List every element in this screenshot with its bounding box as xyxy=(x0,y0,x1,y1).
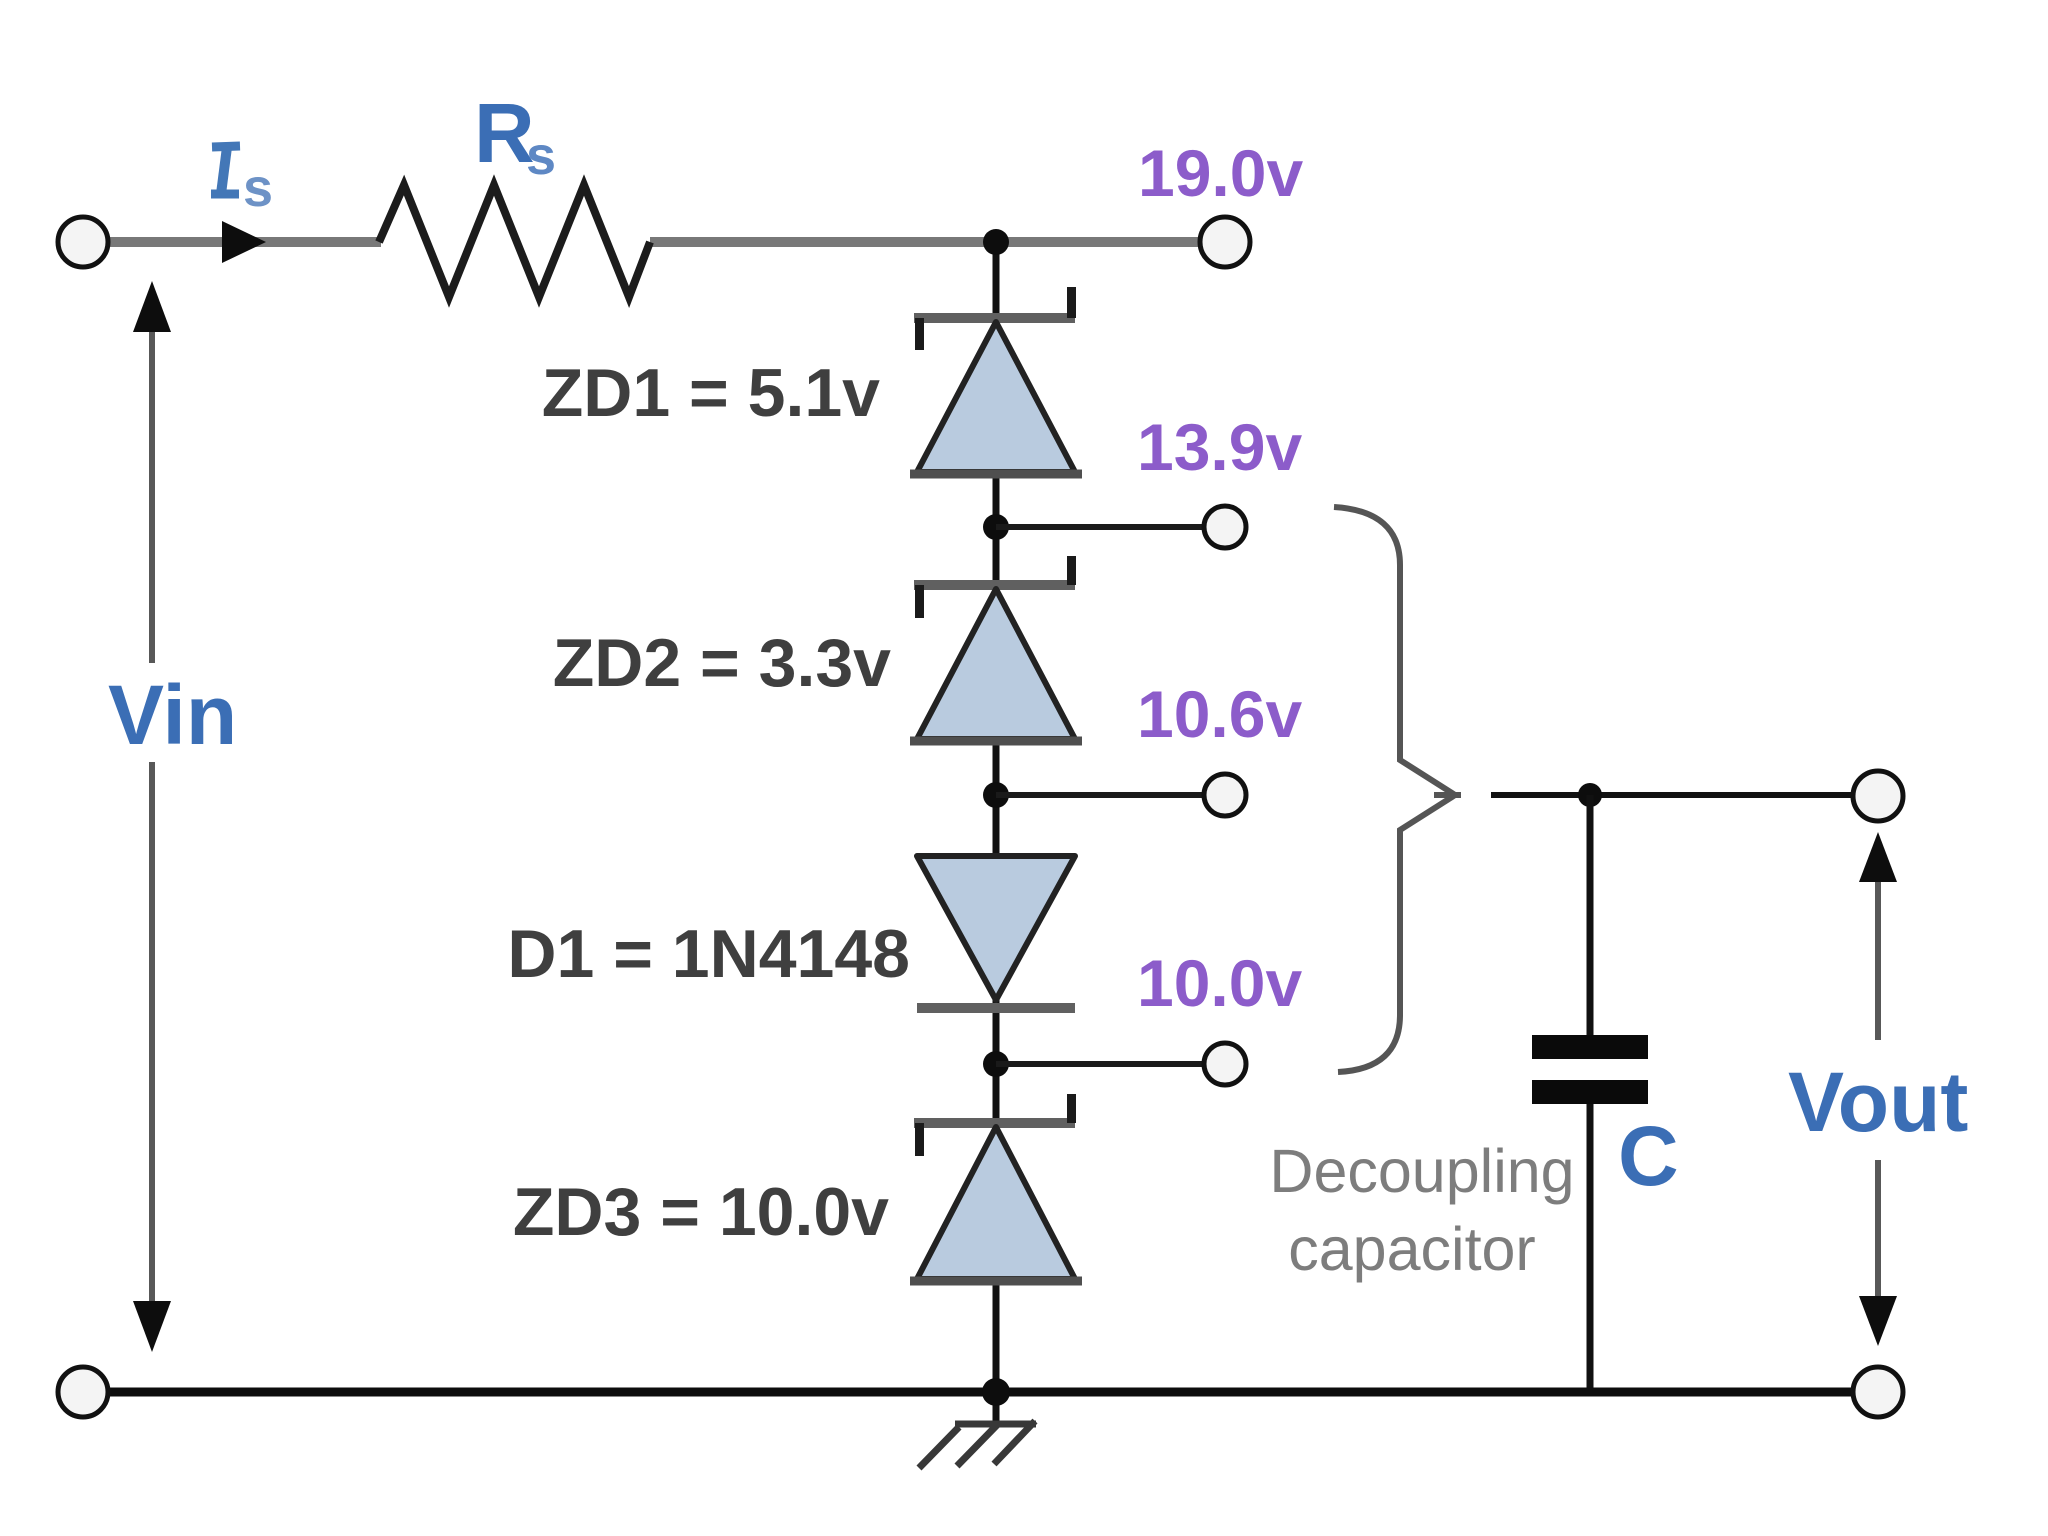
svg-text:C: C xyxy=(1618,1109,1679,1203)
svg-text:ZD1 = 5.1v: ZD1 = 5.1v xyxy=(542,355,880,431)
terminal 19.0v (top right) xyxy=(1200,217,1250,267)
node D (10.0v junction) xyxy=(983,1051,1009,1077)
svg-text:Vout: Vout xyxy=(1788,1055,1968,1149)
zener diode ZD3 xyxy=(910,1094,1082,1281)
terminal 13.9v xyxy=(1204,506,1246,548)
input terminal (top left) xyxy=(58,217,108,267)
terminal Vout- (bottom right) xyxy=(1853,1367,1903,1417)
wire tap 13.9v xyxy=(996,524,1203,530)
Vout arrow xyxy=(1859,832,1897,1346)
brace (output group) xyxy=(1334,507,1461,1072)
svg-text:Decoupling: Decoupling xyxy=(1269,1137,1574,1205)
label Rs xyxy=(474,86,556,186)
wire zener chain (node A to ground) xyxy=(993,242,1000,1424)
svg-text:s: s xyxy=(243,158,273,218)
svg-text:Vin: Vin xyxy=(108,668,237,762)
label Decoupling capacitor xyxy=(1269,1137,1574,1283)
ground xyxy=(919,1421,1036,1468)
wire output rail xyxy=(1491,792,1855,798)
terminal 10.6v xyxy=(1204,774,1246,816)
wire tap 10.0v xyxy=(996,1061,1203,1067)
resistor Rs xyxy=(379,185,650,297)
svg-text:10.6v: 10.6v xyxy=(1137,677,1302,751)
diode D1 xyxy=(917,856,1075,1013)
zener diode ZD1 xyxy=(910,287,1082,474)
node A (19.0v junction) xyxy=(983,229,1009,255)
svg-text:13.9v: 13.9v xyxy=(1137,410,1302,484)
terminal 10.0v xyxy=(1204,1043,1246,1085)
current arrow Is xyxy=(222,221,266,263)
node E (output junction) xyxy=(1578,783,1602,807)
capacitor C xyxy=(1532,1035,1648,1104)
svg-text:D1 = 1N4148: D1 = 1N4148 xyxy=(507,916,910,992)
node F (ground junction) xyxy=(982,1378,1010,1406)
zener diode ZD2 xyxy=(910,556,1082,741)
wire capacitor branch xyxy=(1587,795,1594,1392)
wire tap 10.6v xyxy=(996,792,1203,798)
node B (13.9v junction) xyxy=(983,514,1009,540)
svg-text:capacitor: capacitor xyxy=(1288,1215,1536,1283)
terminal Vout+ (right) xyxy=(1853,771,1903,821)
label Is xyxy=(211,146,273,218)
wire bottom rail xyxy=(105,1388,1855,1397)
Vin arrow xyxy=(133,281,171,1352)
svg-text:ZD2 = 3.3v: ZD2 = 3.3v xyxy=(553,625,891,701)
svg-text:19.0v: 19.0v xyxy=(1138,136,1303,210)
svg-text:ZD3 = 10.0v: ZD3 = 10.0v xyxy=(513,1174,889,1250)
wire top rail (Vin+ to node A) xyxy=(105,237,1201,247)
svg-text:s: s xyxy=(526,126,556,186)
terminal Vin- (bottom left) xyxy=(58,1367,108,1417)
node C2 (10.6v junction) xyxy=(983,782,1009,808)
svg-text:10.0v: 10.0v xyxy=(1137,946,1302,1020)
